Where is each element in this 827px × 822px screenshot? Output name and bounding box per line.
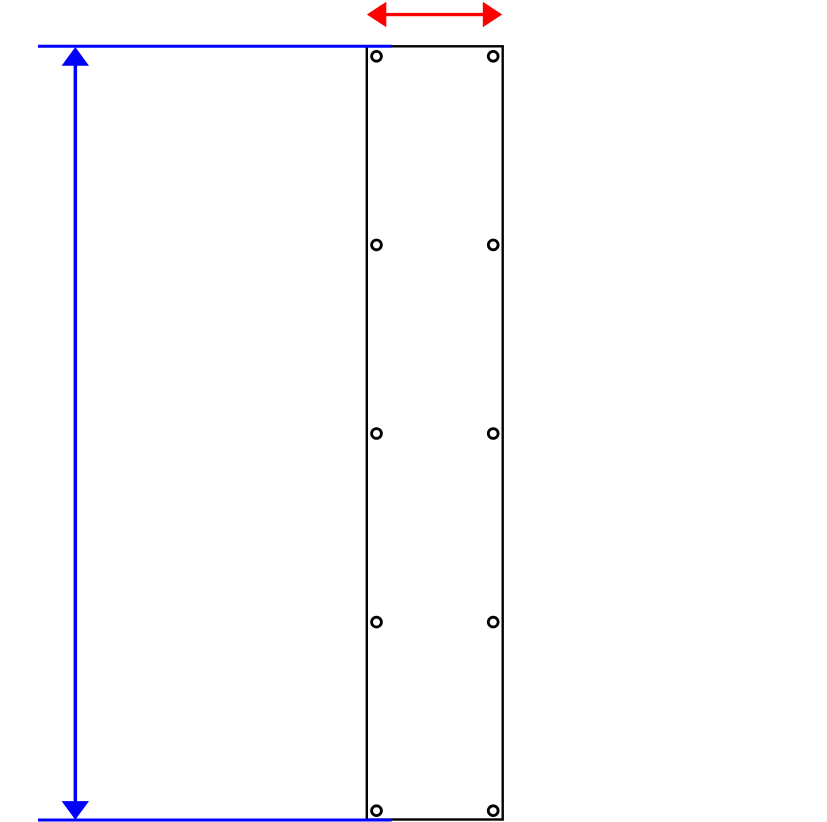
blue height dimension arrow (62, 47, 89, 820)
bolt hole row3 right (488, 429, 498, 439)
bolt hole row2 left (372, 240, 382, 250)
blue bottom extension line (38, 819, 392, 822)
bolt hole row5 right (488, 806, 498, 816)
bolt hole row4 left (372, 617, 382, 627)
bolt hole row3 left (372, 429, 382, 439)
bolt hole row5 left (372, 806, 382, 816)
bolt hole row2 right (488, 240, 498, 250)
bolt hole row4 right (488, 617, 498, 627)
red width dimension arrow (367, 2, 502, 28)
blue top extension line (38, 45, 392, 48)
plate outline (367, 46, 503, 819)
bolt hole row1 left (372, 51, 382, 61)
bolt hole row1 right (488, 51, 498, 61)
